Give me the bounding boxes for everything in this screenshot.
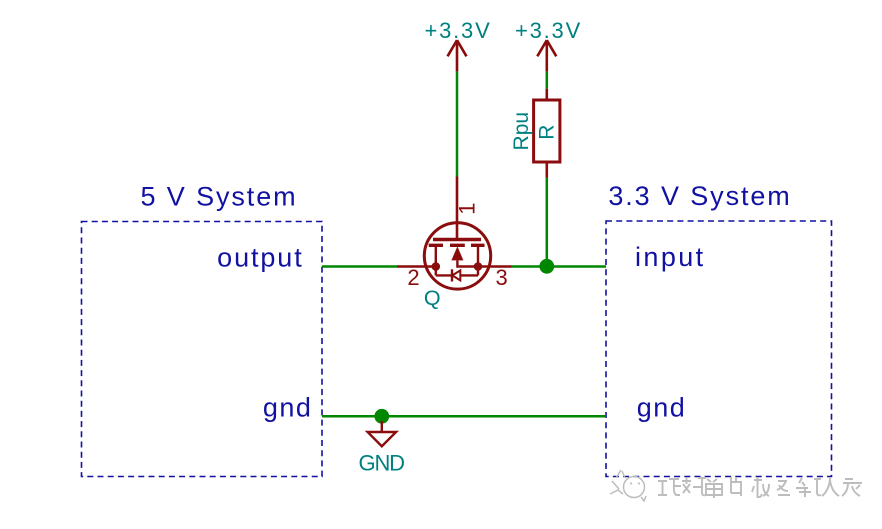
junction node input/pullup [539,259,554,274]
pin 1 lead [456,177,459,240]
svg-text:3.3 V System: 3.3 V System [608,181,791,211]
resistor Rpu [534,89,560,178]
body diode triangle [452,270,460,280]
watermark text strokes [658,477,862,498]
gate bar [433,238,481,241]
wire +3.3V to Q pin1 [456,71,459,176]
block 3.3V system box [606,221,832,477]
svg-text:input: input [635,242,706,272]
wire output to Q pin2 [322,265,397,268]
svg-text:+3.3V: +3.3V [424,18,491,43]
ground symbol [368,421,397,446]
svg-text:R: R [535,125,558,140]
svg-text:1: 1 [455,202,480,214]
svg-text:gnd: gnd [263,393,313,423]
junction node gnd [374,409,389,424]
bottom rail right [460,274,478,276]
source drop right [477,245,479,275]
svg-text:Rpu: Rpu [510,112,533,151]
source dot [474,262,483,271]
svg-text:3: 3 [495,265,507,290]
wire Rpu to node [546,178,549,267]
svg-text:output: output [217,242,303,272]
substrate link to source [457,260,478,266]
drain drop left [435,245,437,275]
body diode cathode bar [451,269,453,281]
wire +3.3V to Rpu [546,71,549,88]
bottom rail left [436,274,452,276]
svg-text:2: 2 [407,265,419,290]
power symbol +3.3V right [537,40,556,71]
wire Q pin3 to input [512,265,607,268]
svg-text:GND: GND [359,451,405,476]
svg-text:Q: Q [424,286,441,310]
block 5V system box [82,222,323,477]
channel dashes [429,244,443,247]
pin 2 lead [397,265,436,268]
pin 3 lead [478,265,512,268]
svg-text:gnd: gnd [637,393,687,423]
svg-text:+3.3V: +3.3V [515,18,582,43]
drain dot [432,262,441,271]
transistor Q internals [397,177,512,282]
substrate arrow [451,246,463,260]
svg-text:5 V System: 5 V System [140,182,297,212]
watermark icon [610,470,646,501]
wire gnd bus [322,415,606,418]
power symbol +3.3V left [448,40,467,71]
transistor Q body circle [424,223,490,289]
